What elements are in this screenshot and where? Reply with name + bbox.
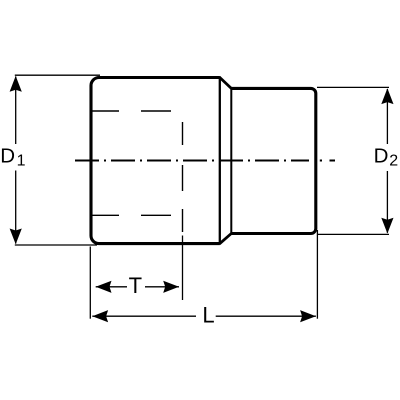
arrowhead T right	[163, 281, 179, 293]
centerline (dash-dot axis)	[75, 160, 309, 162]
extension line: T right (vertical, below body)	[182, 236, 184, 301]
arrowhead L left	[92, 310, 108, 322]
svg-text:L: L	[202, 302, 214, 327]
extension line: T/L left (vertical)	[89, 247, 91, 319]
extension line: L right (vertical)	[316, 230, 318, 319]
svg-text:D: D	[374, 145, 389, 168]
hidden line: bore top edge	[92, 110, 172, 112]
dimension line D1	[15, 77, 17, 244]
arrowhead D1 up	[10, 76, 22, 92]
socket head body (large cylinder, side view)	[91, 78, 220, 244]
hidden line: bore bottom edge	[92, 214, 172, 216]
bottom chamfer edge	[220, 234, 232, 244]
arrowhead T left	[96, 281, 112, 293]
arrowhead D2 up	[381, 88, 393, 104]
svg-text:2: 2	[389, 153, 398, 170]
extension line: D1 top	[15, 74, 100, 76]
top chamfer edge	[220, 78, 232, 89]
dimension line T	[96, 286, 179, 288]
hidden line: bore end (vertical)	[182, 122, 184, 232]
dimension line L	[92, 315, 316, 317]
svg-text:1: 1	[17, 153, 26, 170]
cylinder left face edge	[230, 88, 232, 235]
arrowhead D1 down	[10, 229, 22, 245]
extension line: D2 top	[317, 86, 389, 88]
drive-end cylinder (small cylinder, side view)	[231, 88, 315, 233]
extension line: D1 bottom	[15, 244, 97, 246]
dimension line D2	[386, 89, 388, 233]
extension line: D2 bottom	[317, 233, 389, 235]
svg-text:D: D	[0, 145, 15, 168]
body right face edge	[219, 76, 221, 245]
arrowhead D2 down	[381, 218, 393, 234]
svg-text:T: T	[129, 273, 142, 298]
arrowhead L right	[300, 310, 316, 322]
